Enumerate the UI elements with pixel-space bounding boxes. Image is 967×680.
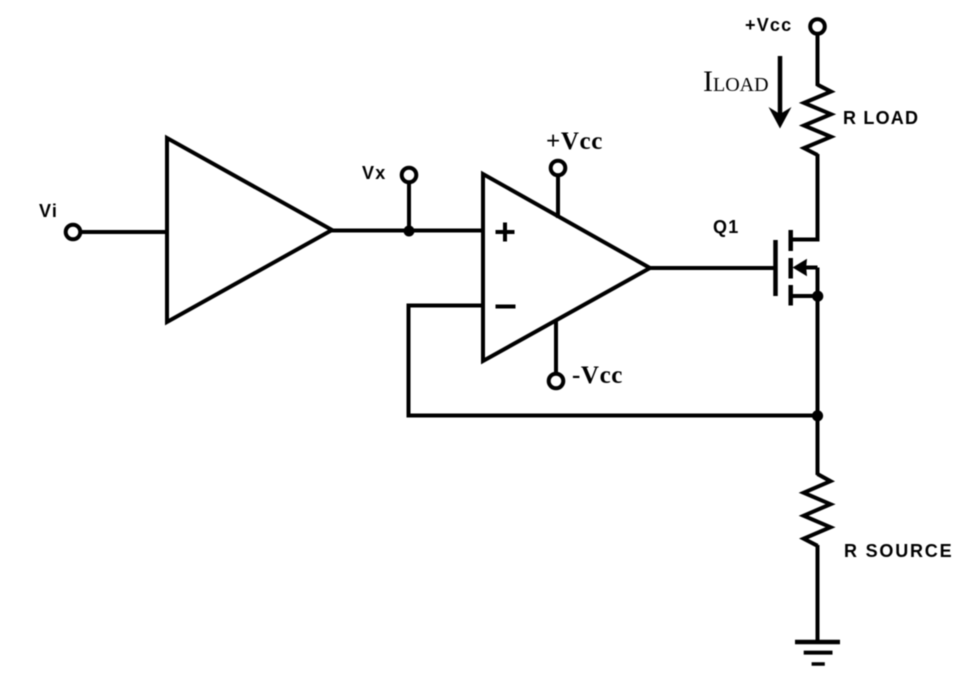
svg-text:+Vcc: +Vcc <box>745 15 792 35</box>
svg-text:Vx: Vx <box>362 163 386 183</box>
svg-text:-Vcc: -Vcc <box>572 362 623 389</box>
svg-text:+Vcc: +Vcc <box>546 128 603 155</box>
svg-text:R LOAD: R LOAD <box>843 108 919 128</box>
svg-text:Q1: Q1 <box>713 217 739 237</box>
svg-text:ILOAD: ILOAD <box>703 65 769 98</box>
svg-text:Vi: Vi <box>39 201 58 221</box>
svg-text:R SOURCE: R SOURCE <box>844 541 953 561</box>
